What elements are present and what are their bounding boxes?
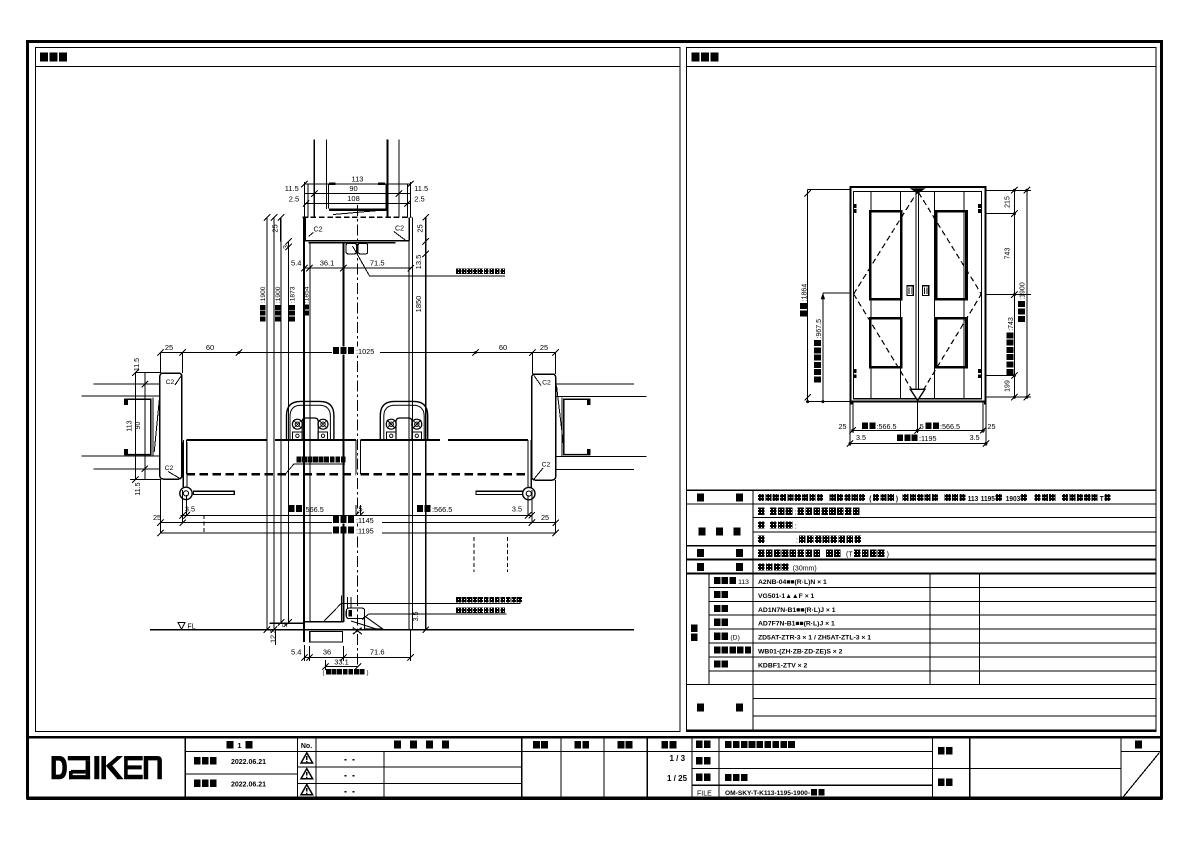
svg-text:36.1: 36.1 <box>320 258 335 267</box>
elevation left dim line 1864 <box>807 190 809 402</box>
elevation bottom dim line A <box>853 429 984 431</box>
svg-text:25: 25 <box>270 224 279 232</box>
pivot hardware arch right door <box>380 401 427 439</box>
spec table outer top line <box>687 489 1157 491</box>
svg-text:25: 25 <box>839 422 847 431</box>
svg-text:1195: 1195 <box>981 496 995 503</box>
left panel frame <box>36 48 681 732</box>
svg-text:60: 60 <box>206 343 214 352</box>
head C2 chamfer mark right <box>394 231 406 240</box>
elevation panel left bottom <box>870 318 901 367</box>
svg-text:): ) <box>887 551 889 558</box>
parts sub-label 本体 <box>714 591 720 598</box>
right hinge arm <box>476 491 523 494</box>
left jamb C2 chamfer top <box>175 376 181 386</box>
content おもいやりシリーズ <box>725 741 732 748</box>
elevation bottom meeting triangle <box>910 389 925 400</box>
head jamb box top dashed <box>302 216 411 218</box>
svg-text::566.5: :566.5 <box>304 505 324 514</box>
table label 構造 <box>697 563 704 571</box>
svg-text::1900: :1900 <box>1020 282 1027 300</box>
svg-text::1864: :1864 <box>802 284 809 302</box>
spec table biko row lines <box>753 698 1156 700</box>
spec table row line 仕上げ bottom <box>687 545 1157 547</box>
spec table vertical label divider <box>752 490 754 730</box>
elevation left dim line 967.5 with arrow <box>822 293 824 402</box>
spec table row line panel bottom <box>753 517 1156 519</box>
svg-text:FILE: FILE <box>697 790 712 797</box>
wall stud lip left <box>329 182 336 185</box>
right panel frame <box>687 48 1157 732</box>
svg-text:25: 25 <box>415 224 424 232</box>
title 第1版 header <box>227 741 234 749</box>
elevation right dim line inner 215 743 743 199 <box>1013 190 1015 397</box>
floor line FL <box>150 629 634 631</box>
svg-text:): ) <box>896 496 898 503</box>
right wall plan outer line top <box>556 383 634 385</box>
svg-text::967.5: :967.5 <box>816 319 823 339</box>
elevation diamond dashed open-direction marks <box>854 193 917 295</box>
svg-text:25: 25 <box>165 343 173 352</box>
table content 要式 line <box>758 494 1111 503</box>
svg-text:1850: 1850 <box>414 296 423 313</box>
head jamb box right edge <box>408 217 410 240</box>
svg-text:2022.06.21: 2022.06.21 <box>231 782 266 789</box>
svg-text:25: 25 <box>988 422 996 431</box>
elevation outer frame <box>850 187 985 402</box>
right door plan left edge <box>359 440 361 474</box>
door right face line <box>343 243 345 622</box>
svg-text:71.6: 71.6 <box>370 648 385 657</box>
revision row lines <box>298 766 522 768</box>
svg-text:1: 1 <box>237 741 241 750</box>
right door plan right edge <box>527 440 529 474</box>
plan dim line C 1195 <box>160 532 555 534</box>
title 第1版 row line <box>185 773 297 775</box>
left hinge leaf <box>183 440 185 487</box>
elevation inner frame <box>854 192 982 399</box>
revision dots <box>345 759 347 761</box>
svg-text:25: 25 <box>540 343 548 352</box>
plan dim label 外法幅:1145 <box>332 516 382 523</box>
svg-text::1145: :1145 <box>356 516 374 525</box>
svg-text:113: 113 <box>738 579 749 586</box>
svg-text:71.5: 71.5 <box>370 258 385 267</box>
table content 把手 row <box>758 549 765 556</box>
daiken cell right border emphasized <box>184 737 186 799</box>
left wall plan outer line bottom <box>94 468 161 470</box>
extension line head right a <box>407 184 409 217</box>
svg-text:No.: No. <box>301 743 312 750</box>
spec table parts row lines <box>709 586 1156 588</box>
left panel title strip line <box>36 65 681 67</box>
sill dim ext verticals <box>303 645 305 661</box>
title 改訂履歴 header <box>394 741 401 749</box>
right wall diagonal break <box>557 386 564 446</box>
spec table vertical 品番 divider <box>708 574 710 685</box>
right wall stud channel <box>564 399 591 454</box>
right panel title 正面図 <box>692 53 700 62</box>
left wall dim cap top <box>135 372 160 374</box>
left wall dim cap bottom <box>130 479 160 481</box>
title 作成 header <box>618 741 625 749</box>
svg-text:3.5: 3.5 <box>512 505 522 514</box>
right dim line 1850 vertical <box>425 217 427 629</box>
head jamb box bottom <box>304 240 409 242</box>
svg-text:KDBF1-ZTV × 2: KDBF1-ZTV × 2 <box>758 662 808 669</box>
svg-text:113: 113 <box>127 420 134 431</box>
svg-text:743: 743 <box>1005 248 1012 260</box>
plan dim ext verticals A <box>182 490 184 523</box>
elevation right ext lines <box>985 189 1031 191</box>
svg-text::743: :743 <box>1008 317 1015 331</box>
door note 全閉時位置を示す underlined <box>297 457 302 463</box>
rotated label 把手芯加工位置:743 lower <box>1007 317 1016 375</box>
svg-text::: : <box>796 538 798 545</box>
left wall diagonal break <box>154 396 160 452</box>
left wall plan inner line top <box>82 395 161 397</box>
plan top dim extension left jamb <box>159 353 161 374</box>
svg-text::1195: :1195 <box>356 526 374 535</box>
elevation stile line right door a <box>934 192 936 399</box>
left wall dim line 113 <box>134 373 136 480</box>
right jamb plan box <box>532 374 556 480</box>
plan dim line B 25 1145 25 <box>160 522 555 524</box>
callout フランス落し:ステンレス <box>456 597 461 603</box>
left wall stud channel <box>124 399 151 454</box>
wall stud lip right <box>378 182 385 185</box>
elevation panel right bottom <box>936 318 966 367</box>
parts sub-label 丁番D <box>714 633 720 640</box>
lintel bar black <box>329 208 387 211</box>
elevation stile line left door a <box>870 192 872 399</box>
head lower dim line 5.4 36.1 71.5 <box>304 267 410 269</box>
page diagonal <box>1123 753 1160 798</box>
right dim vertical line pair a <box>408 217 410 629</box>
plan bottom dashed ext line mid right a <box>473 537 475 572</box>
right wall stud lip top <box>587 399 591 405</box>
dim line 113 head <box>304 183 410 185</box>
sill dim line 5.4 36 71.6 <box>304 657 410 659</box>
table label 仕上げ <box>699 528 706 536</box>
svg-text:2.5: 2.5 <box>414 195 424 204</box>
svg-text:25: 25 <box>541 513 549 522</box>
elevation hinge marks right top <box>978 204 981 208</box>
svg-text:3.5: 3.5 <box>413 612 420 622</box>
svg-text:C2: C2 <box>314 227 323 234</box>
title 縮尺 header <box>661 741 668 749</box>
lintel diagonal <box>333 210 386 215</box>
rotated label 躯体高:1900 <box>260 286 267 321</box>
spec table parts bottom line <box>687 684 1157 686</box>
DAIKEN logo <box>52 756 162 779</box>
magnet catch leader horizontal <box>370 275 506 277</box>
svg-text:OM-SKY-T-K113-1195-1900-: OM-SKY-T-K113-1195-1900- <box>725 790 810 797</box>
table label 要式 <box>697 494 704 502</box>
right door plan rect bottom edge dashed <box>360 473 528 475</box>
label 名称 <box>696 741 703 748</box>
svg-text:25: 25 <box>153 513 161 522</box>
label 件名 <box>938 747 945 754</box>
right hinge leaf <box>530 440 532 487</box>
table content 枠 オレフィンシート <box>758 536 765 543</box>
title block outer <box>28 737 1161 799</box>
plan top dim line 25 60 1025 <box>160 352 555 354</box>
head C2 chamfer mark left <box>309 232 314 236</box>
svg-text:(D): (D) <box>730 634 739 641</box>
magnet catch label マグネットキャッチ <box>456 269 461 275</box>
svg-text:C2: C2 <box>165 465 174 472</box>
spec table vertical parts col b <box>979 574 981 685</box>
label 図名 <box>696 774 703 781</box>
svg-text:): ) <box>367 671 369 677</box>
svg-text:12.2: 12.2 <box>270 629 277 643</box>
door bottom rail line <box>303 621 343 623</box>
plan dim label 枠外幅:1195 <box>332 526 382 533</box>
vertical dim line 1900 a <box>266 217 268 629</box>
plan bottom dashed ext line mid right b <box>507 537 509 572</box>
svg-text:2.5: 2.5 <box>289 195 299 204</box>
svg-text:1 / 3: 1 / 3 <box>670 754 686 763</box>
sill dim line 33.1 <box>326 666 359 668</box>
spec table row line 要式 bottom <box>687 503 1157 505</box>
door head line <box>309 242 396 244</box>
svg-text::1195: :1195 <box>919 434 936 443</box>
svg-text:WB01-(ZH·ZB·ZD·ZE)S × 2: WB01-(ZH·ZB·ZD·ZE)S × 2 <box>758 649 843 656</box>
france bolt rounded box <box>346 608 364 618</box>
elevation right dim line outer 1900 <box>1026 190 1028 397</box>
left wall plan outer line top <box>94 383 161 385</box>
svg-text:C2: C2 <box>395 226 404 233</box>
right jamb door stop lines <box>527 442 529 491</box>
title block header row line <box>185 751 932 753</box>
svg-text:C2: C2 <box>166 379 175 386</box>
svg-text:113: 113 <box>352 175 364 184</box>
extension line head left b <box>307 184 309 217</box>
left hinge knuckle circle <box>180 487 192 499</box>
wall above right finish line inner <box>398 140 400 218</box>
elevation bottom dim line B 1195 <box>850 443 986 445</box>
left jamb plan box <box>160 373 182 479</box>
right wall stud lip bottom <box>587 449 591 455</box>
right door plan rect top edge <box>360 439 440 441</box>
plan dim label 全幅:566.5 right <box>417 505 423 512</box>
spec table row line 構造 bottom <box>687 573 1157 575</box>
svg-text:(: ( <box>323 671 325 677</box>
elevation panel left top <box>870 211 901 299</box>
spec table row line saikobu bottom <box>753 531 1156 533</box>
label 頁 <box>1135 741 1142 749</box>
svg-text:5: 5 <box>920 422 924 431</box>
left wall plan inner line bottom <box>82 455 161 457</box>
rotated label 扉高:1854 <box>303 286 310 315</box>
svg-text:5.4: 5.4 <box>291 648 301 657</box>
title 改訂日 2022.06.21 <box>194 780 201 787</box>
svg-text:AD1N7N-B1■■(R·L)J × 1: AD1N7N-B1■■(R·L)J × 1 <box>758 607 836 614</box>
svg-text::: : <box>795 523 797 530</box>
elevation center meeting lines <box>915 192 917 399</box>
svg-text:36: 36 <box>323 648 331 657</box>
svg-text:113: 113 <box>968 496 979 503</box>
right hinge knuckle circle <box>523 487 535 499</box>
door left face thick line <box>303 241 305 642</box>
svg-text:C2: C2 <box>542 380 551 387</box>
elevation bottom ext verticals <box>849 402 851 446</box>
wall above left finish line outer <box>313 140 315 218</box>
elevation handle right <box>923 286 929 296</box>
svg-text::1900: :1900 <box>260 286 267 303</box>
dim line 90 head <box>304 193 410 195</box>
svg-text::566.5: :566.5 <box>432 505 452 514</box>
svg-text:(T: (T <box>846 551 853 558</box>
svg-text:60: 60 <box>499 343 507 352</box>
svg-text:(30mm): (30mm) <box>793 565 817 572</box>
elevation panel right top <box>936 211 966 299</box>
title block verticals <box>184 737 186 799</box>
head jamb box left edge thick <box>303 217 306 241</box>
head opening ext line left <box>327 184 329 208</box>
svg-text:AD7F7N-B1■■(R·L)J × 1: AD7F7N-B1■■(R·L)J × 1 <box>758 621 835 628</box>
table label 備考 <box>697 704 704 712</box>
magnet catch box right <box>358 243 368 254</box>
elevation stile line left door b <box>900 192 902 399</box>
floor finish line left of door <box>270 622 304 624</box>
pivot hardware arch left door <box>287 401 334 439</box>
svg-text:13.5: 13.5 <box>414 255 423 270</box>
svg-text:33.1: 33.1 <box>334 657 349 666</box>
extension line head right b <box>409 182 411 217</box>
content 三面図 <box>725 774 732 781</box>
spec table bottom line <box>687 730 1157 732</box>
plan dim line A 全幅 566.5 x2 and 5 <box>181 514 532 516</box>
title 確認 header <box>574 741 581 749</box>
svg-text:3.5: 3.5 <box>185 505 195 514</box>
svg-text:2022.06.21: 2022.06.21 <box>231 759 266 766</box>
parts sub-label ストッパー <box>714 647 720 654</box>
right wall plan outer line bottom <box>556 468 634 470</box>
svg-text::1873: :1873 <box>289 286 296 303</box>
parts sub-label 固定枠113 <box>714 577 720 584</box>
head opening ext line right <box>385 184 387 208</box>
svg-text:5: 5 <box>358 505 362 514</box>
svg-text:ZD5AT-ZTR-3 × 1 / ZH5AT-ZTL-3: ZD5AT-ZTR-3 × 1 / ZH5AT-ZTL-3 × 1 <box>758 635 871 642</box>
svg-text:11.5: 11.5 <box>285 184 299 193</box>
floor cross mark <box>353 628 362 635</box>
rotated label 枠外高:1900 <box>1018 282 1027 322</box>
france bolt rod lines <box>347 597 349 608</box>
elevation hinge marks left top <box>854 204 857 208</box>
right wall plan inner line top <box>556 395 647 397</box>
svg-text:C2: C2 <box>542 462 551 469</box>
sill box below floor <box>310 632 343 642</box>
left wall stud lip top <box>124 399 128 405</box>
title 承認 header <box>533 741 540 749</box>
left wall stud lip bottom <box>124 449 128 455</box>
left jamb door stop lines <box>182 442 184 491</box>
stopper wedge <box>365 616 383 629</box>
vertical dim line 1873 <box>280 217 282 622</box>
svg-text::1025: :1025 <box>356 347 374 356</box>
FL mark <box>178 623 185 630</box>
extension line head left a <box>303 182 305 217</box>
vertical dim line 1854 <box>288 241 290 622</box>
svg-text:5: 5 <box>282 623 289 627</box>
france bolt inner mark <box>349 610 352 617</box>
svg-text:215: 215 <box>1005 196 1012 208</box>
left wall dim line 90 <box>144 373 146 480</box>
right jamb C2 chamfer bottom <box>534 468 543 479</box>
svg-text:VG501-1▲▲F × 1: VG501-1▲▲F × 1 <box>758 593 815 600</box>
table label 品番 vertical <box>691 625 698 632</box>
svg-text:11.5: 11.5 <box>414 184 428 193</box>
parts sub-label 上部 <box>714 605 720 612</box>
elevation frame feet <box>850 402 852 405</box>
plan dim label 内法幅:1025 <box>332 347 380 355</box>
callout 下部戸当りストッパー <box>456 608 461 614</box>
svg-text::566.5: :566.5 <box>877 422 897 431</box>
plan dim ext verticals C <box>159 479 161 533</box>
left door plan rect top edge <box>187 439 267 441</box>
svg-text:90: 90 <box>135 422 142 430</box>
revision date divider <box>383 752 385 799</box>
svg-text::566.5: :566.5 <box>940 422 960 431</box>
svg-text::: : <box>795 510 797 517</box>
svg-text:11.5: 11.5 <box>135 482 142 495</box>
plan dim label 全幅:566.5 left <box>289 505 295 512</box>
right panel title strip line <box>687 65 1157 67</box>
right dim vertical line pair b <box>412 217 414 629</box>
title 制定日 2022.06.21 <box>194 757 201 764</box>
center axis dash-dot <box>357 205 359 667</box>
left jamb C2 chamfer bottom <box>168 472 180 479</box>
door left inner line <box>309 243 311 622</box>
table label 把手 <box>697 549 704 557</box>
wall above right finish line outer thick <box>387 140 389 218</box>
parts sub-label 受部 <box>714 619 720 626</box>
svg-text:1903: 1903 <box>1006 496 1021 503</box>
svg-text:5.4: 5.4 <box>291 258 301 267</box>
name rows lines <box>692 767 1121 769</box>
right wall plan inner line bottom <box>556 455 647 457</box>
table content 構造 row <box>758 563 765 570</box>
warning triangles <box>301 753 313 763</box>
elevation hinge marks left bottom <box>854 369 857 373</box>
rotated label 把手芯加工位置:967.5 <box>814 319 823 383</box>
rotated label 扉高:1864 <box>800 284 809 317</box>
elevation stile line right door b <box>963 192 965 399</box>
svg-text:11.5: 11.5 <box>134 358 141 371</box>
rotated label 枠外高:1873 <box>289 286 296 321</box>
svg-text:3.5: 3.5 <box>856 433 866 442</box>
rotated label 内法高:1900 <box>275 286 282 321</box>
left door plan rect bottom edge dashed <box>187 473 356 475</box>
wall above left finish line inner <box>326 140 328 209</box>
elevation handle left <box>907 286 913 296</box>
svg-text:3.5: 3.5 <box>970 433 980 442</box>
left panel title 断面図 <box>40 53 48 62</box>
elevation ext top left <box>808 189 851 191</box>
magnet catch leader diagonal <box>353 246 370 276</box>
svg-text:A2NB-04■■(R·L)N × 1: A2NB-04■■(R·L)N × 1 <box>758 579 827 586</box>
plan bottom dashed ext line left <box>203 515 205 533</box>
table content 扉採光部 <box>758 521 765 528</box>
left door plan right edge <box>355 440 357 474</box>
vertical dim line 1900 b <box>273 217 275 629</box>
plan top dim extension right jamb <box>531 353 533 375</box>
elevation hinge marks right bottom <box>978 369 981 373</box>
label 社員 <box>938 779 945 786</box>
svg-text:90: 90 <box>349 184 357 193</box>
